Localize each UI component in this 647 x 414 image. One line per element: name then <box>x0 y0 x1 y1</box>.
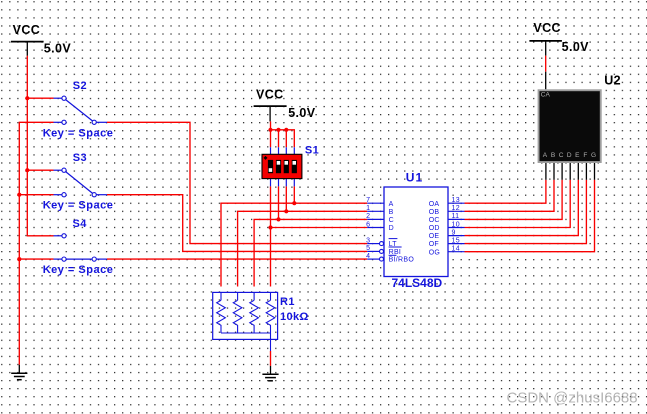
svg-text:E: E <box>575 152 580 159</box>
svg-text:U2: U2 <box>604 73 621 87</box>
wire U1 outputs to display U2 pins <box>465 180 595 252</box>
svg-text:15: 15 <box>452 237 460 244</box>
svg-text:2: 2 <box>366 213 370 220</box>
svg-text:Key = Space: Key = Space <box>43 200 114 212</box>
svg-text:B: B <box>551 152 555 159</box>
svg-text:D: D <box>567 152 572 159</box>
svg-text:14: 14 <box>452 246 460 253</box>
svg-text:C: C <box>389 217 394 224</box>
wire S4 common to U1 pin 4 (BI) <box>107 258 367 260</box>
node junction GND-S4 <box>17 257 21 261</box>
svg-text:BI/RBO: BI/RBO <box>389 257 415 264</box>
svg-text:A: A <box>389 201 394 208</box>
svg-text:4: 4 <box>366 253 370 260</box>
svg-text:12: 12 <box>452 205 460 212</box>
wire node D to U1 pin 6 <box>271 227 368 229</box>
svg-text:7: 7 <box>366 197 370 204</box>
node junction VCC2-S1p1 <box>268 128 272 132</box>
wire node A: R1 pull-up to U1 pin 7 <box>221 203 367 286</box>
svg-text:S1: S1 <box>305 145 319 157</box>
node junction VCC2-S1p2 <box>276 128 280 132</box>
wire node B: R1 to U1 pin 1 <box>238 211 368 286</box>
svg-text:5.0V: 5.0V <box>44 42 72 56</box>
wire node C: R1 to U1 pin 2 <box>254 219 367 286</box>
svg-text:CA: CA <box>541 92 551 99</box>
wire S1 pin2 to node C <box>278 186 280 219</box>
svg-text:5: 5 <box>366 245 370 252</box>
svg-text:3: 3 <box>366 237 370 244</box>
svg-text:R1: R1 <box>280 296 295 308</box>
svg-text:U1: U1 <box>406 170 423 184</box>
svg-text:B: B <box>389 209 394 216</box>
wire VCC3 to U2 CA pin <box>545 56 547 72</box>
wire S1 pin4 to node A <box>293 186 295 203</box>
node junction VCC-S3 <box>25 168 29 172</box>
wire S3 common to U1 pin 5 (RBI) <box>107 195 367 252</box>
switch S1 (4x DIP switch) <box>262 145 319 187</box>
ground GND2 (below R1) <box>262 366 278 381</box>
node junction VCC-S2 <box>25 96 29 100</box>
wire S2 common to U1 pin 3 (LT) <box>107 122 367 243</box>
svg-text:A: A <box>543 152 548 159</box>
svg-text:VCC: VCC <box>533 21 561 35</box>
svg-text:CSDN @zhusI6688: CSDN @zhusI6688 <box>507 390 638 407</box>
svg-text:S3: S3 <box>73 152 87 164</box>
svg-text:D: D <box>389 225 394 232</box>
svg-text:OB: OB <box>429 209 440 216</box>
svg-text:S2: S2 <box>73 80 87 92</box>
svg-text:9: 9 <box>452 229 456 236</box>
node junction VCC2-S1p3 <box>284 128 288 132</box>
svg-text:5.0V: 5.0V <box>562 40 590 54</box>
svg-text:S4: S4 <box>73 218 88 230</box>
power VCC1 (5.0V source for switches) <box>11 23 71 56</box>
svg-text:1: 1 <box>366 205 370 212</box>
svg-text:OF: OF <box>429 241 439 248</box>
wire S1 pin1 through node D to R1 <box>270 186 272 286</box>
svg-text:OD: OD <box>429 225 440 232</box>
svg-text:OE: OE <box>429 233 440 240</box>
switch S2 (SPDT, Key = Space) <box>43 80 114 139</box>
svg-text:74LS48D: 74LS48D <box>392 276 443 290</box>
svg-text:13: 13 <box>452 197 460 204</box>
wire R1 common to ground <box>270 351 272 366</box>
svg-text:OC: OC <box>429 217 440 224</box>
resistor R1 10k ohm (4-resistor SIP pack) <box>213 292 309 351</box>
svg-text:5.0V: 5.0V <box>288 106 316 120</box>
node junction S1p3-B <box>284 209 288 213</box>
svg-text:10kΩ: 10kΩ <box>280 311 309 323</box>
node junction S1p1-D <box>268 225 272 229</box>
svg-text:G: G <box>591 152 596 159</box>
node junction S1p2-C <box>276 217 280 221</box>
svg-text:10: 10 <box>452 221 460 228</box>
svg-text:11: 11 <box>452 213 460 220</box>
svg-text:VCC: VCC <box>256 88 284 102</box>
svg-text:OG: OG <box>429 249 441 256</box>
wire VCC rail to switches <box>27 56 53 236</box>
wire ground rail (switch bottom throws) <box>19 122 53 364</box>
power VCC2 (5.0V for S1) <box>254 88 316 122</box>
wire VCC2 to S1 pins <box>271 121 295 147</box>
switch S3 (SPDT, Key = Space) <box>43 152 114 212</box>
svg-text:Key = Space: Key = Space <box>43 264 114 276</box>
svg-text:C: C <box>559 152 564 159</box>
switch S4 (SPDT, Key = Space) <box>43 218 114 276</box>
svg-text:OA: OA <box>429 201 440 208</box>
ground GND1 (switch rail) <box>11 365 27 380</box>
svg-text:F: F <box>583 152 587 159</box>
node junction S1p4-A <box>292 201 296 205</box>
op-amp U1 74LS48D BCD-to-7seg decoder <box>366 170 464 290</box>
svg-text:VCC: VCC <box>13 23 41 37</box>
node junction GND-S3 <box>17 193 21 197</box>
wire S1 pin3 to node B <box>285 186 287 211</box>
svg-text:6: 6 <box>366 221 370 228</box>
power VCC3 (5.0V for display anode) <box>529 21 589 56</box>
seven-segment display U2 (common anode) <box>538 72 621 180</box>
svg-text:Key = Space: Key = Space <box>43 127 114 139</box>
